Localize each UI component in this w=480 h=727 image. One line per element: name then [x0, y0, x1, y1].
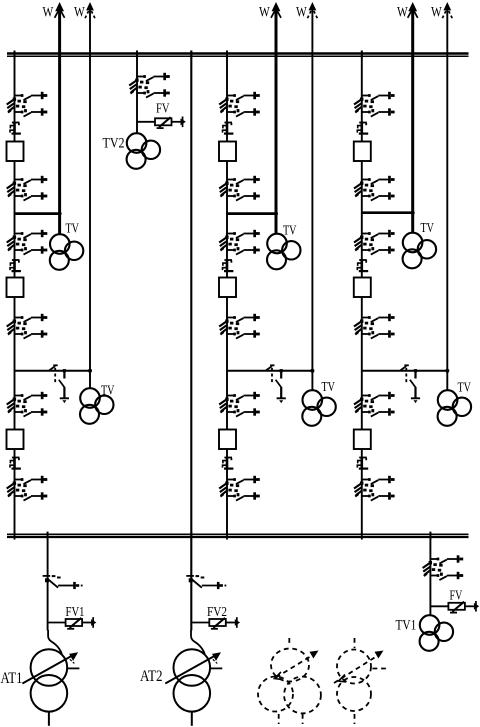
voltage transformer TV (line W2-1)	[267, 234, 301, 270]
voltage transformer TV (line W3-2)	[438, 390, 472, 426]
svg-text:TV: TV	[66, 222, 80, 237]
wire: string 3 feeder	[361, 51, 363, 535]
svg-text:FV: FV	[156, 101, 170, 116]
voltage transformer TV2	[127, 133, 161, 169]
disconnector QS1-6	[7, 476, 48, 501]
surge arrester FV	[430, 601, 479, 613]
svg-text:TV: TV	[101, 384, 115, 399]
wire: TV2 bay	[136, 51, 138, 135]
disconnector QS1-3	[7, 230, 48, 255]
current transformer TA3-2	[357, 259, 368, 271]
disconnector QS3-2	[354, 176, 395, 201]
svg-text:TV: TV	[458, 381, 472, 396]
current transformer TA3-3	[357, 457, 368, 469]
current transformer TA1-2	[10, 259, 21, 271]
node: string2 bottom bus tick	[226, 532, 228, 540]
disconnector QS2-1	[219, 92, 260, 117]
circuit breaker Q3-3	[354, 430, 371, 450]
disconnector QS3-6	[354, 476, 395, 501]
busbar system W2 (bottom)	[7, 533, 469, 535]
autotransformer AT2	[165, 630, 222, 726]
future autotransformer AT3 (dashed)	[334, 638, 388, 724]
current transformer TA1-3	[10, 457, 21, 469]
disconnector QS2-5	[219, 392, 260, 417]
node: top bus ticks	[15, 51, 362, 60]
future three-winding transformer T3 (dashed)	[258, 638, 321, 724]
wire: tap to line W2	[15, 370, 91, 372]
disconnector QS3-1	[354, 92, 395, 117]
disconnector QS-TV1	[423, 555, 464, 580]
line W (2nd), with arrow	[89, 8, 91, 389]
disconnector QS1-5	[7, 392, 48, 417]
disconnector QS2-6	[219, 476, 260, 501]
svg-text:FV: FV	[450, 588, 463, 603]
svg-text:W: W	[74, 5, 85, 21]
circuit breaker Q1-1	[7, 142, 24, 162]
line W (3rd), with arrow	[275, 8, 278, 234]
disconnector QS3-5	[354, 392, 395, 417]
wire: tap to line W6	[362, 370, 448, 372]
voltage transformer TV1	[420, 615, 454, 651]
svg-text:W: W	[431, 5, 442, 21]
voltage transformer TV (line W1-2)	[80, 388, 114, 424]
svg-text:W: W	[43, 5, 54, 21]
node: tap junction	[274, 212, 278, 216]
disconnector QS1-4	[7, 314, 48, 339]
current transformer TA1-1	[10, 122, 21, 134]
disconnector QS3-3	[354, 230, 395, 255]
node: link junction	[310, 369, 314, 373]
disconnector QS1-2	[7, 176, 48, 201]
surge arrester FV	[137, 117, 186, 129]
node: tap junction	[411, 211, 415, 215]
svg-text:TV1: TV1	[396, 618, 417, 634]
voltage transformer TV (line W3-1)	[403, 233, 437, 269]
svg-text:AT1: AT1	[1, 670, 23, 687]
disconnector QS2-2	[219, 176, 260, 201]
autotransformer AT1	[22, 630, 79, 726]
node: link junction	[445, 369, 449, 373]
svg-text:W: W	[397, 5, 408, 21]
svg-text:TV: TV	[322, 380, 336, 395]
disconnector QS2-4	[219, 314, 260, 339]
current transformer TA3-1	[357, 122, 368, 134]
current transformer TA2-1	[223, 122, 234, 134]
wire: string 1 feeder	[14, 51, 16, 535]
link disconnector with earthing switch	[266, 365, 286, 403]
surge arrester FV2	[191, 617, 240, 629]
disconnector QS-TV2	[129, 73, 170, 98]
line W (5th), with arrow	[411, 8, 414, 233]
circuit breaker Q2-3	[219, 430, 236, 450]
svg-text:FV1: FV1	[66, 604, 85, 619]
svg-text:AT2: AT2	[140, 668, 163, 685]
circuit breaker Q2-1	[219, 142, 236, 162]
wire: tap to line W4	[227, 370, 312, 372]
line W (4th), with arrow	[311, 8, 313, 391]
svg-text:TV: TV	[421, 221, 435, 236]
svg-text:FV2: FV2	[207, 604, 227, 619]
svg-text:W: W	[259, 5, 270, 21]
wire: TV1 bay	[429, 532, 431, 616]
node: link junction	[88, 369, 92, 373]
circuit breaker Q3-1	[354, 142, 371, 162]
wire: tap to line W1	[15, 212, 60, 215]
busbar system W1 (top)	[7, 52, 469, 54]
line W (6th), with arrow	[446, 8, 448, 391]
voltage transformer TV (line W1-1)	[50, 234, 84, 270]
svg-text:W: W	[296, 5, 307, 21]
circuit breaker Q2-2	[219, 278, 236, 298]
disconnector QS3-4	[354, 314, 395, 339]
wire: string 2 feeder	[226, 51, 228, 535]
current transformer TA2-3	[223, 457, 234, 469]
wire: tap to line W5	[362, 211, 413, 214]
disconnector QS2-3	[219, 230, 260, 255]
wire: tap to line W3	[227, 212, 276, 215]
surge arrester FV1	[48, 617, 97, 629]
line W (1st), with arrow	[58, 8, 61, 235]
link disconnector with earthing switch	[400, 365, 420, 403]
link disconnector with earthing switch	[49, 365, 69, 403]
disconnector QS-AT1	[43, 575, 83, 589]
disconnector QS-AT2	[186, 575, 226, 589]
node: string3 bottom bus tick	[361, 532, 363, 540]
circuit breaker Q1-3	[7, 430, 24, 450]
circuit breaker Q1-2	[7, 278, 24, 298]
node: bottom bus ticks	[48, 532, 431, 540]
svg-text:TV2: TV2	[103, 136, 125, 152]
circuit breaker Q3-2	[354, 278, 371, 298]
node: tap junction	[58, 212, 62, 216]
disconnector QS1-1	[7, 92, 48, 117]
node: string1 bottom bus tick	[14, 532, 16, 540]
wire: AT2 tie	[190, 51, 192, 631]
voltage transformer TV (line W2-2)	[302, 390, 336, 426]
svg-text:TV: TV	[283, 224, 297, 239]
wire: AT1 bay	[47, 532, 49, 631]
current transformer TA2-2	[223, 259, 234, 271]
